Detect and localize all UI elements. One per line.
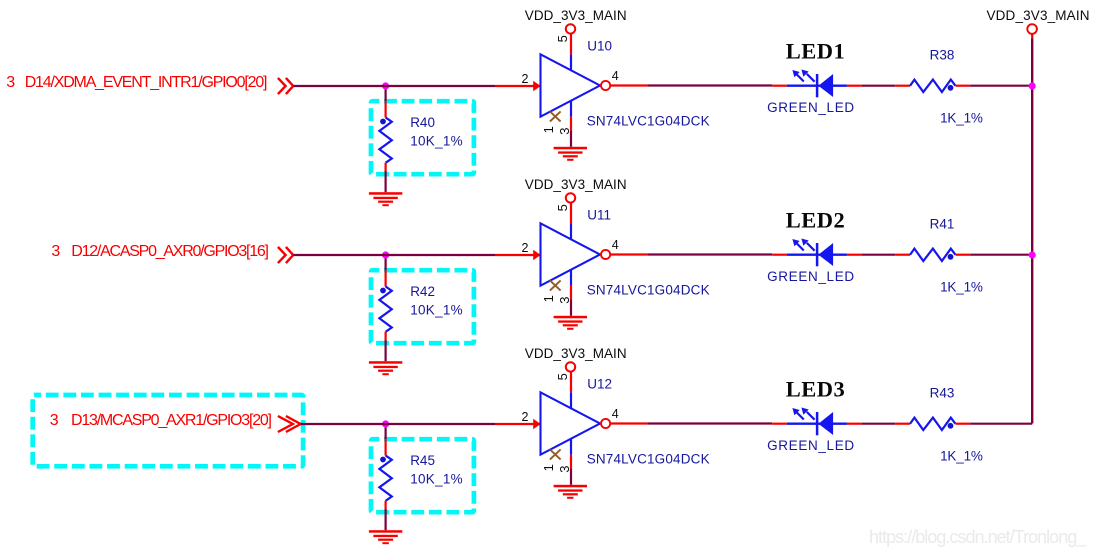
svg-text:LED3: LED3 bbox=[786, 377, 845, 402]
svg-text:U10: U10 bbox=[587, 39, 612, 54]
svg-text:LED2: LED2 bbox=[786, 208, 845, 233]
svg-text:R38: R38 bbox=[930, 48, 955, 63]
svg-text:R43: R43 bbox=[930, 386, 955, 401]
svg-text:LED1: LED1 bbox=[786, 39, 845, 64]
svg-text:https://blog.csdn.net/Tronlong: https://blog.csdn.net/Tronlong_ bbox=[869, 527, 1087, 548]
svg-text:3: 3 bbox=[51, 243, 60, 260]
svg-text:3: 3 bbox=[6, 74, 15, 91]
svg-text:D14/XDMA_EVENT_INTR1/GPIO0[20]: D14/XDMA_EVENT_INTR1/GPIO0[20] bbox=[25, 74, 268, 91]
svg-text:R42: R42 bbox=[410, 284, 435, 299]
svg-text:R41: R41 bbox=[930, 217, 955, 232]
svg-text:D12/ACASP0_AXR0/GPIO3[16]: D12/ACASP0_AXR0/GPIO3[16] bbox=[71, 243, 269, 260]
svg-text:VDD_3V3_MAIN: VDD_3V3_MAIN bbox=[987, 8, 1090, 23]
svg-text:U12: U12 bbox=[587, 377, 612, 392]
svg-text:U11: U11 bbox=[587, 208, 611, 223]
svg-text:D13/MCASP0_AXR1/GPIO3[20]: D13/MCASP0_AXR1/GPIO3[20] bbox=[71, 412, 272, 429]
svg-text:R45: R45 bbox=[410, 453, 435, 468]
svg-text:3: 3 bbox=[50, 412, 59, 429]
svg-text:R40: R40 bbox=[410, 115, 435, 130]
